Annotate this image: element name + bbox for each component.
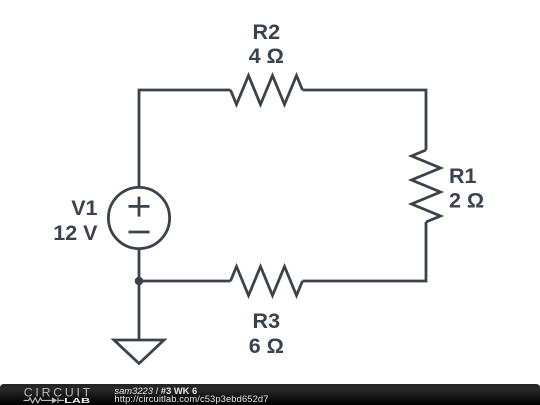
svg-text:4 Ω: 4 Ω bbox=[249, 44, 284, 68]
svg-text:R3: R3 bbox=[253, 309, 281, 333]
ground bbox=[114, 340, 164, 364]
svg-text:V1: V1 bbox=[71, 196, 97, 220]
node A junction dot bbox=[135, 277, 144, 286]
svg-text:http://circuitlab.com/c53p3ebd: http://circuitlab.com/c53p3ebd652d7 bbox=[114, 393, 268, 404]
wire: R2 right terminal to top-right corner down to R1 top bbox=[303, 90, 427, 150]
wire: R3 left terminal to node A bbox=[139, 280, 231, 283]
logo diode triangle bbox=[52, 397, 57, 403]
resistor R3 bbox=[231, 267, 303, 296]
wire: top-left from V1 top up and right to R2 left terminal bbox=[139, 90, 231, 186]
resistor R2 bbox=[231, 76, 303, 105]
svg-text:R1: R1 bbox=[449, 164, 477, 188]
logo resistor-diode line bbox=[24, 398, 65, 404]
svg-text:2 Ω: 2 Ω bbox=[449, 189, 484, 213]
wire: V1 bottom to node A bbox=[138, 250, 141, 281]
V1 minus sign bbox=[129, 231, 150, 234]
svg-text:LAB: LAB bbox=[64, 396, 90, 405]
svg-text:6 Ω: 6 Ω bbox=[249, 334, 284, 358]
V1 plus sign bbox=[129, 197, 150, 217]
resistor R1 bbox=[412, 150, 441, 222]
svg-text:12 V: 12 V bbox=[53, 221, 98, 245]
footer bar bbox=[0, 384, 540, 405]
voltage source V1 bbox=[108, 187, 169, 248]
wire: node A down to ground bbox=[138, 281, 141, 340]
wire: R1 bottom to bottom-right corner left to R3 right terminal bbox=[303, 222, 427, 281]
svg-text:R2: R2 bbox=[253, 20, 281, 44]
